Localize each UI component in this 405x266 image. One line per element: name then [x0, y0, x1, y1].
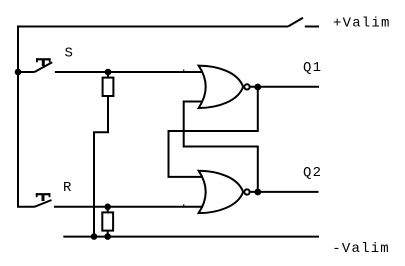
wire R line to gate input [54, 206, 204, 208]
svg-text:R: R [63, 180, 73, 196]
wire joint tick on S line [183, 69, 184, 72]
wire +Valim stub [305, 26, 319, 28]
wire S line to gate input [55, 71, 204, 73]
wire feedback from Q1 to U2 upper input [169, 87, 258, 177]
node S input dot [105, 69, 112, 76]
node R input dot [104, 204, 111, 211]
wire U1 lower input / feedback from Q2 [184, 102, 258, 192]
wire joint tick on R line [183, 204, 184, 207]
node Q1 junction dot [254, 84, 261, 91]
nor-gate U2 body [199, 171, 244, 213]
node Q2 junction dot [254, 189, 261, 196]
node S-resistor to -Valim dot [91, 233, 98, 240]
nor-gate U1 bubble [244, 84, 249, 89]
wire bottom rail -Valim [63, 236, 319, 238]
wire S resistor bottom lead with jog to bottom rail [94, 96, 108, 237]
node S junction dot on left rail [15, 69, 22, 76]
svg-text:S: S [65, 46, 75, 62]
switch S blade [35, 62, 53, 72]
pushbutton actuator S [36, 58, 51, 66]
node R-resistor to -Valim dot [104, 233, 111, 240]
svg-text:-Valim: -Valim [332, 241, 390, 257]
svg-text:Q1: Q1 [303, 60, 322, 76]
resistor R2 (R pull-down) [102, 212, 113, 230]
nor-gate U1 body [199, 66, 244, 108]
wire Q2 output [249, 191, 319, 193]
svg-text:Q2: Q2 [303, 165, 322, 181]
switch R blade [35, 200, 52, 207]
resistor R1 (S pull-down) [103, 78, 114, 96]
wire S resistor top lead [107, 72, 109, 78]
pushbutton actuator R [36, 193, 51, 201]
wire R resistor bottom lead [107, 231, 109, 237]
wire R resistor top lead [107, 207, 109, 213]
wire S pivot feed [18, 71, 35, 73]
svg-text:+Valim: +Valim [333, 15, 391, 31]
nor-gate U2 bubble [244, 189, 249, 194]
switch SW1 blade (main power) [288, 18, 303, 27]
wire Q1 output [249, 86, 319, 88]
wire top rail / left vertical / R feed [18, 27, 288, 207]
